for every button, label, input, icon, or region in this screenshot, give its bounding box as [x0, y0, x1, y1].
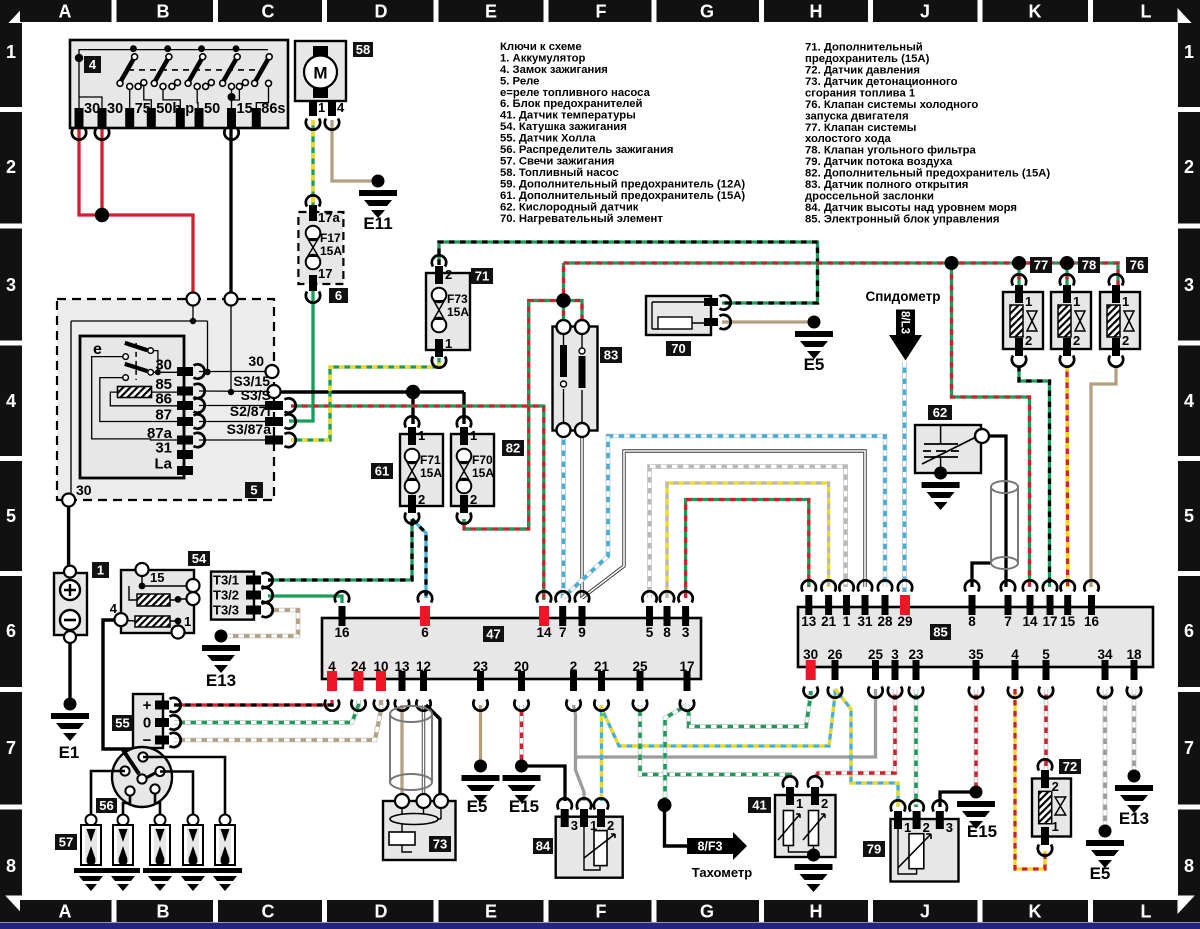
- svg-text:25: 25: [632, 659, 648, 674]
- svg-text:26: 26: [827, 647, 843, 662]
- wire ECU47 pin25 to temp sensor 41 pin1 green/white: [640, 705, 790, 780]
- svg-text:56. Распределитель зажигания: 56. Распределитель зажигания: [500, 144, 674, 156]
- svg-text:8/F3: 8/F3: [697, 840, 722, 854]
- wire throttle 83 to ECU47 pin7 blue/white: [560, 434, 565, 598]
- wire junction to run green/red: [562, 263, 565, 327]
- wire ECU85 pin26 to airflow 79 pin1 blue/yellow: [835, 689, 898, 807]
- oxygen sensor heater cylinder: [991, 481, 1018, 569]
- svg-text:1: 1: [1052, 819, 1059, 834]
- svg-text:2: 2: [418, 492, 425, 507]
- wire throttle 83 to ECU47 pin9 white: [580, 434, 583, 598]
- svg-text:2: 2: [1184, 157, 1194, 177]
- wire speedometer 8/L3 to ECU85 pin29 blue/white: [902, 362, 907, 592]
- svg-text:S3/S: S3/S: [241, 387, 271, 403]
- wire ECU47 pin7 to ECU85 pin28 blue/white loop: [563, 436, 885, 598]
- svg-text:30: 30: [803, 647, 818, 662]
- svg-text:55: 55: [115, 716, 129, 731]
- svg-text:La: La: [154, 456, 172, 473]
- svg-text:17: 17: [679, 659, 694, 674]
- svg-text:Тахометр: Тахометр: [692, 865, 753, 880]
- svg-text:A: A: [59, 902, 72, 922]
- svg-text:59. Дополнительный предохранит: 59. Дополнительный предохранитель (12А): [500, 178, 745, 190]
- svg-text:1: 1: [318, 100, 325, 115]
- svg-text:16: 16: [1084, 614, 1100, 629]
- svg-text:50: 50: [204, 101, 220, 117]
- svg-text:73. Датчик детонационного: 73. Датчик детонационного: [805, 76, 958, 88]
- svg-text:3: 3: [946, 820, 953, 835]
- fuse 71 F73: [426, 255, 493, 368]
- svg-text:8: 8: [663, 625, 671, 640]
- svg-text:30: 30: [76, 482, 92, 498]
- wire relay 30 to battery black: [67, 506, 70, 566]
- wire ECU47 pin21 to ECU85 pin26 blue/yellow: [602, 689, 836, 746]
- wire S3/15 to fuses F71 F70 black: [280, 390, 464, 393]
- node run/85pin14: [945, 256, 959, 270]
- ground E11: [359, 175, 397, 234]
- wire junction to throttle switch 83 green/red: [564, 301, 583, 328]
- svg-text:4: 4: [89, 57, 97, 72]
- wire ECU85 pin34 to ground E5 grey/white: [1103, 689, 1108, 831]
- svg-text:7: 7: [1004, 614, 1012, 629]
- svg-text:47: 47: [486, 627, 500, 642]
- svg-text:61. Дополнительный предохранит: 61. Дополнительный предохранитель (15А): [500, 190, 745, 202]
- svg-text:54: 54: [192, 551, 207, 566]
- valve 76 cold start: [1100, 257, 1148, 367]
- svg-text:J: J: [920, 2, 930, 22]
- ground E1: [51, 698, 89, 763]
- ground E5 (heater): [795, 316, 833, 375]
- svg-text:30: 30: [248, 353, 264, 369]
- svg-text:1: 1: [6, 42, 16, 62]
- relay 5: [57, 293, 296, 507]
- throttle switch 83: [553, 320, 623, 437]
- wire Hall + to ECU47 pin4 red/black: [174, 700, 332, 705]
- svg-text:5: 5: [1042, 647, 1050, 662]
- svg-text:14: 14: [536, 625, 552, 640]
- fuel pump 58: [295, 41, 373, 130]
- svg-text:15: 15: [1060, 614, 1076, 629]
- svg-text:1: 1: [1184, 42, 1194, 62]
- ECU connector 47: [322, 591, 701, 711]
- wire ECU85 pin18 to ground E13 grey/white: [1132, 689, 1137, 776]
- svg-text:15A: 15A: [320, 244, 342, 258]
- node run/valve77: [1012, 256, 1026, 270]
- wire branch to valve 78: [1065, 263, 1068, 288]
- heater element 70: [646, 295, 731, 356]
- svg-text:41: 41: [752, 798, 766, 813]
- svg-text:D: D: [375, 902, 388, 922]
- relay coil box e: [80, 336, 184, 478]
- wire valve 77 to ECU85 pin17 green/black: [1019, 366, 1050, 587]
- svg-text:4. Замок зажигания: 4. Замок зажигания: [500, 64, 608, 76]
- svg-text:L: L: [1141, 902, 1152, 922]
- svg-text:1: 1: [97, 563, 104, 578]
- svg-text:7: 7: [1184, 738, 1194, 758]
- fuse 61 F71: [371, 416, 443, 524]
- svg-text:3: 3: [6, 275, 16, 295]
- svg-text:57: 57: [59, 835, 73, 850]
- svg-text:C: C: [262, 902, 275, 922]
- temperature sensor 41: [748, 776, 836, 892]
- svg-text:3: 3: [891, 647, 899, 662]
- svg-text:p: p: [185, 101, 194, 117]
- svg-text:8: 8: [968, 614, 976, 629]
- node tachometer: [658, 798, 672, 812]
- svg-text:Спидометр: Спидометр: [865, 289, 940, 304]
- svg-text:85. Электронный блок управлени: 85. Электронный блок управления: [805, 213, 999, 225]
- svg-text:34: 34: [1097, 647, 1113, 662]
- svg-text:M: M: [313, 64, 327, 83]
- ground E5 (ECU47 pin23): [462, 760, 500, 817]
- svg-text:78. Клапан угольного фильтра: 78. Клапан угольного фильтра: [805, 145, 977, 157]
- svg-text:2: 2: [470, 492, 477, 507]
- svg-text:21: 21: [594, 659, 610, 674]
- wire ECU85 pin8 to O2 shell black: [972, 563, 991, 587]
- wire ground E15 to altitude sensor 84 pin3 black: [522, 766, 566, 801]
- svg-text:86s: 86s: [261, 101, 285, 117]
- wire ECU47 pin20 to ground E15 red/white: [519, 705, 524, 765]
- wire fuse F70 to junction red/green: [464, 301, 564, 530]
- svg-text:4: 4: [337, 100, 345, 115]
- wire ECU47 pin23 to ground E5 brown: [479, 705, 482, 765]
- svg-text:4: 4: [1011, 647, 1019, 662]
- svg-text:E15: E15: [967, 822, 997, 841]
- wire ignition 30b red: [100, 118, 103, 215]
- svg-text:24: 24: [351, 659, 367, 674]
- svg-text:58. Топливный насос: 58. Топливный насос: [500, 167, 619, 179]
- svg-text:3: 3: [682, 625, 690, 640]
- valve 77 idle system: [1003, 257, 1052, 367]
- wire coil 4 to distributor black: [103, 620, 143, 752]
- tachometer arrow 8/F3: [687, 832, 752, 880]
- ignition coil 54: [110, 551, 210, 639]
- svg-text:Ключи к схеме: Ключи к схеме: [500, 41, 582, 53]
- svg-text:13: 13: [394, 659, 410, 674]
- wire branch to valve 77: [1017, 263, 1020, 288]
- svg-text:55. Датчик Холла: 55. Датчик Холла: [500, 133, 596, 145]
- svg-text:5: 5: [6, 506, 16, 526]
- wire ignition 30 red to relay: [79, 118, 193, 299]
- fuse 82 F70: [451, 416, 524, 524]
- svg-text:холостого хода: холостого хода: [805, 133, 891, 145]
- wire ECU85 pin5 to pressure 72 pin2 red/white: [1044, 689, 1049, 771]
- svg-text:4: 4: [110, 601, 118, 616]
- svg-text:0: 0: [143, 715, 151, 732]
- svg-text:56: 56: [99, 798, 113, 813]
- svg-text:15A: 15A: [420, 466, 442, 480]
- wire ECU47 pin17 to ECU85 pin30 green/white: [687, 691, 811, 727]
- svg-text:15A: 15A: [447, 305, 469, 319]
- svg-text:2: 2: [923, 820, 930, 835]
- svg-text:E13: E13: [206, 671, 236, 690]
- wire tach node to arrow 8/F3 black: [665, 805, 688, 846]
- wire ECU85 pin4 to pressure 72 pin1 yellow/red: [1015, 689, 1045, 869]
- svg-text:20: 20: [514, 659, 529, 674]
- wire ECU85 pin23 to airflow 79 pin2 green/white: [914, 689, 919, 807]
- svg-text:82. Дополнительный предохранит: 82. Дополнительный предохранитель (15А): [805, 168, 1050, 180]
- svg-text:71. Дополнительный: 71. Дополнительный: [805, 42, 923, 54]
- svg-text:S2/87f: S2/87f: [230, 403, 272, 419]
- svg-text:77. Клапан системы: 77. Клапан системы: [805, 122, 916, 134]
- svg-text:1. Аккумулятор: 1. Аккумулятор: [500, 53, 586, 65]
- wire ECU47 pin5 to ECU85 pin1 grey/white loop: [650, 467, 846, 599]
- ECU connector 85: [798, 580, 1153, 698]
- svg-text:54. Катушка зажигания: 54. Катушка зажигания: [500, 121, 627, 133]
- wire fuse F71 to ECU47 pin6 blue/black: [412, 519, 426, 598]
- wire fuse F17 to relay S2/87f green: [289, 289, 313, 421]
- valve 78 carbon filter: [1051, 257, 1100, 367]
- svg-text:82: 82: [506, 441, 520, 456]
- wire fuel pump 1 to fuse F17 green/yellow: [311, 120, 314, 207]
- svg-text:62. Кислородный датчик: 62. Кислородный датчик: [500, 201, 639, 213]
- node junction F70/83: [556, 293, 570, 307]
- wire ignition 15 black to relay: [229, 118, 232, 299]
- wire Hall - to ECU47 pin10 brown/white: [174, 700, 381, 740]
- svg-text:2: 2: [6, 157, 16, 177]
- svg-text:9: 9: [578, 625, 586, 640]
- svg-text:13: 13: [801, 614, 817, 629]
- svg-text:E1: E1: [59, 743, 80, 762]
- svg-text:31: 31: [857, 614, 873, 629]
- svg-text:70. Нагревательный элемент: 70. Нагревательный элемент: [500, 213, 663, 225]
- svg-text:A: A: [59, 2, 72, 22]
- svg-text:79. Датчик потока воздуха: 79. Датчик потока воздуха: [805, 156, 953, 168]
- svg-text:E: E: [485, 902, 497, 922]
- wire Hall 0 to ECU47 pin24 green/white: [174, 700, 359, 723]
- svg-text:1: 1: [796, 796, 803, 811]
- svg-text:+: +: [143, 697, 152, 714]
- svg-text:6: 6: [1184, 621, 1194, 641]
- ground E15 (ECU47 pin20): [503, 760, 541, 817]
- wire ECU47 pin21 to altitude 84 pin2 blue/yellow: [600, 705, 603, 801]
- svg-text:21: 21: [821, 614, 837, 629]
- node run/valve78: [1060, 256, 1074, 270]
- svg-text:73: 73: [433, 837, 447, 852]
- svg-text:2: 2: [445, 267, 452, 282]
- wire fuse F71 to coil T3/1 green/black: [268, 519, 412, 580]
- svg-text:7: 7: [559, 625, 567, 640]
- svg-text:S3/87a: S3/87a: [227, 421, 272, 437]
- wire coil T3/3 to ground E13 brown/white: [228, 610, 298, 636]
- wire ECU47 pin12 shield to knock sensor 73 black: [426, 705, 440, 800]
- svg-text:79: 79: [867, 842, 881, 857]
- ignition distributor 56: [96, 747, 172, 813]
- wire fuse F73 to heater 70 green/black: [439, 242, 818, 303]
- svg-text:6: 6: [421, 625, 429, 640]
- svg-text:4: 4: [6, 391, 16, 411]
- svg-text:F17: F17: [320, 231, 341, 245]
- svg-text:17: 17: [1042, 614, 1057, 629]
- svg-text:F: F: [596, 2, 607, 22]
- svg-text:30: 30: [155, 357, 172, 374]
- svg-text:F: F: [596, 902, 607, 922]
- wire heater 70 to ground E5 brown: [722, 320, 814, 323]
- svg-text:1: 1: [418, 428, 425, 443]
- svg-text:5: 5: [1184, 506, 1194, 526]
- oxygen sensor 62: [915, 405, 989, 510]
- airflow sensor 79: [863, 800, 959, 881]
- svg-text:3: 3: [1184, 275, 1194, 295]
- speedometer arrow 8/L3: [865, 289, 940, 361]
- svg-text:17: 17: [318, 266, 332, 281]
- svg-text:1: 1: [843, 614, 851, 629]
- coil connector T3: [211, 572, 273, 620]
- svg-text:28: 28: [877, 614, 893, 629]
- battery 1: [54, 562, 109, 643]
- svg-text:1: 1: [1122, 294, 1129, 309]
- svg-text:17a: 17a: [318, 210, 340, 225]
- svg-text:2: 2: [1052, 779, 1059, 794]
- svg-text:B: B: [157, 902, 170, 922]
- svg-text:15A: 15A: [472, 466, 494, 480]
- ground E15 (ECU85 pin35): [957, 786, 997, 842]
- svg-text:18: 18: [1126, 647, 1142, 662]
- svg-text:12: 12: [416, 659, 431, 674]
- svg-text:запуска двигателя: запуска двигателя: [805, 110, 909, 122]
- svg-text:72: 72: [1063, 759, 1077, 774]
- wire ECU47 pin12 to knock sensor 73 white: [422, 705, 425, 800]
- svg-text:77: 77: [1034, 258, 1048, 273]
- wire ECU47 pin9 to ECU85 pin31 white loop: [582, 451, 865, 598]
- svg-text:3: 3: [571, 818, 578, 833]
- wire ECU47 pin3 to ECU85 pin13 green/red loop: [686, 500, 809, 599]
- svg-text:T3/2: T3/2: [213, 588, 239, 603]
- svg-text:4: 4: [328, 659, 336, 674]
- svg-text:B: B: [157, 2, 170, 22]
- wire ECU85 pin35 to ground E15 red/white: [974, 689, 979, 792]
- hall sensor 55: [112, 694, 181, 749]
- wire ECU47 pin17 to tach node green/white: [665, 705, 687, 805]
- wire supply run to valve 76 green/red: [564, 263, 1119, 288]
- svg-text:14: 14: [1022, 614, 1038, 629]
- svg-text:5: 5: [250, 483, 257, 498]
- svg-text:2: 2: [570, 659, 578, 674]
- wire valve 78 to ECU85 pin15 red/yellow: [1065, 366, 1069, 587]
- ground E5 (ECU85 pin34): [1086, 825, 1124, 884]
- svg-text:е=реле топливного насоса: е=реле топливного насоса: [500, 87, 651, 99]
- svg-text:29: 29: [897, 614, 912, 629]
- wire O2 sensor 62 heater to ECU85 pin7 black: [982, 436, 1006, 587]
- wire fuel pump 4 to E11 brown: [332, 120, 372, 181]
- svg-text:сгорания топлива 1: сгорания топлива 1: [805, 87, 915, 99]
- svg-text:C: C: [262, 2, 275, 22]
- svg-text:D: D: [375, 2, 388, 22]
- wire ECU47 pin13 to knock sensor 73 brown: [400, 705, 403, 800]
- wire ECU47 pin2 to altitude 84 pin1 grey: [574, 705, 585, 801]
- svg-text:8/L3: 8/L3: [899, 311, 911, 334]
- wire ECU85 pin3 to temp sensor 41 pin2 red/white: [815, 689, 895, 780]
- wire valve 76 to ECU85 pin16 brown: [1091, 366, 1116, 587]
- svg-text:1: 1: [470, 428, 477, 443]
- svg-text:e: e: [93, 341, 102, 358]
- svg-text:E13: E13: [1119, 809, 1149, 828]
- svg-text:6. Блок предохранителей: 6. Блок предохранителей: [500, 98, 643, 110]
- svg-text:76: 76: [1130, 258, 1144, 273]
- svg-text:84. Датчик высоты над уровнем: 84. Датчик высоты над уровнем моря: [805, 202, 1017, 214]
- svg-text:23: 23: [473, 659, 489, 674]
- svg-text:58: 58: [356, 42, 370, 57]
- wire ECU47 pin8 to ECU85 pin21 yellow/grey loop: [667, 483, 829, 598]
- svg-text:16: 16: [334, 625, 350, 640]
- svg-text:G: G: [700, 2, 714, 22]
- wire distributor to plug4: [160, 772, 193, 816]
- svg-text:25: 25: [868, 647, 884, 662]
- svg-text:6: 6: [6, 621, 16, 641]
- svg-text:1: 1: [904, 820, 911, 835]
- svg-text:76. Клапан системы холодного: 76. Клапан системы холодного: [805, 99, 978, 111]
- svg-text:2: 2: [1122, 333, 1129, 348]
- svg-text:35: 35: [968, 647, 984, 662]
- legend text block: [500, 41, 1050, 225]
- wire distributor to plug5: [143, 757, 225, 815]
- wire S3/87a to fuse F73 green/yellow: [291, 358, 439, 440]
- svg-text:предохранитель (15А): предохранитель (15А): [805, 53, 930, 65]
- svg-text:15: 15: [150, 570, 164, 585]
- ground E13 (coil): [202, 630, 240, 691]
- svg-text:8: 8: [1184, 856, 1194, 876]
- fuse block 6 F17: [298, 195, 348, 303]
- svg-text:72. Датчик давления: 72. Датчик давления: [805, 65, 920, 77]
- svg-text:5: 5: [646, 625, 654, 640]
- svg-text:4: 4: [1184, 391, 1194, 411]
- svg-text:1: 1: [184, 614, 191, 629]
- svg-text:K: K: [1029, 902, 1042, 922]
- wire distributor to plug3: [155, 793, 160, 815]
- wire distributor to plug1: [91, 771, 125, 815]
- svg-text:8: 8: [6, 856, 16, 876]
- svg-text:86: 86: [155, 391, 172, 408]
- svg-text:K: K: [1029, 2, 1042, 22]
- svg-text:84: 84: [536, 839, 551, 854]
- svg-text:L: L: [1141, 2, 1152, 22]
- wire ground E15 to airflow 79 pin3 black: [940, 792, 976, 807]
- altitude sensor 84: [533, 798, 623, 878]
- wire distributor to plug2: [123, 795, 130, 815]
- knock sensor cylinder: [390, 706, 432, 790]
- wire S3/S to ECU47 pin14 green/red: [291, 406, 544, 600]
- svg-text:дроссельной заслонки: дроссельной заслонки: [805, 190, 934, 202]
- svg-text:62: 62: [933, 405, 947, 420]
- svg-text:E5: E5: [467, 797, 488, 816]
- svg-text:78: 78: [1082, 258, 1096, 273]
- svg-text:2: 2: [1025, 333, 1032, 348]
- svg-text:87: 87: [155, 407, 172, 424]
- svg-text:6: 6: [335, 288, 342, 303]
- svg-text:E: E: [485, 2, 497, 22]
- svg-text:2: 2: [1073, 333, 1080, 348]
- svg-text:E5: E5: [1090, 864, 1111, 883]
- ignition switch 4: [70, 40, 288, 140]
- svg-text:E11: E11: [363, 214, 392, 233]
- svg-text:7: 7: [6, 738, 16, 758]
- pressure sensor 72: [1032, 759, 1081, 856]
- svg-text:F73: F73: [447, 292, 468, 306]
- svg-text:31: 31: [155, 440, 172, 457]
- svg-text:F71: F71: [420, 453, 441, 467]
- svg-text:1: 1: [445, 336, 452, 351]
- svg-text:H: H: [810, 902, 823, 922]
- svg-text:1: 1: [1073, 294, 1080, 309]
- svg-text:83. Датчик полного открытия: 83. Датчик полного открытия: [805, 179, 968, 191]
- svg-text:J: J: [920, 902, 930, 922]
- ground E13 (ECU85 pin18): [1115, 770, 1153, 829]
- svg-text:83: 83: [604, 348, 618, 363]
- svg-text:15: 15: [237, 101, 253, 117]
- svg-text:E15: E15: [509, 797, 539, 816]
- svg-text:T3/1: T3/1: [213, 573, 239, 588]
- wire branch to ECU85 pin14 green/red: [952, 263, 1030, 587]
- svg-text:E5: E5: [804, 355, 825, 374]
